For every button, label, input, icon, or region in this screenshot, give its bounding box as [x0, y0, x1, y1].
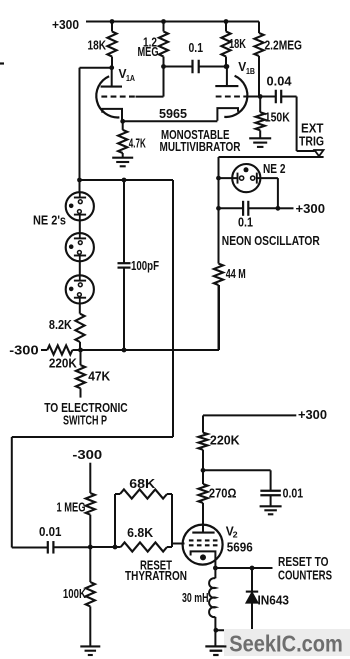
- svg-text:NEON OSCILLATOR: NEON OSCILLATOR: [222, 234, 320, 248]
- svg-text:IN643: IN643: [258, 594, 290, 608]
- svg-text:44 M: 44 M: [226, 267, 246, 281]
- svg-text:68K: 68K: [129, 477, 155, 491]
- svg-text:MEG: MEG: [138, 45, 159, 59]
- svg-text:0.1: 0.1: [238, 216, 253, 230]
- svg-text:6.8K: 6.8K: [127, 526, 153, 540]
- svg-text:0.01: 0.01: [283, 487, 304, 501]
- svg-text:5696: 5696: [227, 540, 253, 554]
- svg-text:18K: 18K: [88, 39, 107, 53]
- svg-text:-300: -300: [9, 344, 38, 358]
- svg-text:+300: +300: [296, 202, 326, 216]
- svg-text:RESET TO: RESET TO: [278, 555, 329, 569]
- svg-text:COUNTERS: COUNTERS: [278, 569, 332, 583]
- svg-text:SWITCH P: SWITCH P: [63, 413, 107, 427]
- svg-text:1A: 1A: [126, 73, 135, 83]
- svg-text:8.2K: 8.2K: [49, 318, 72, 332]
- svg-text:1B: 1B: [246, 66, 255, 76]
- svg-text:MULTIVIBRATOR: MULTIVIBRATOR: [160, 140, 241, 154]
- svg-text:18K: 18K: [229, 37, 246, 51]
- svg-text:+300: +300: [52, 18, 79, 32]
- svg-text:100K: 100K: [63, 587, 86, 601]
- svg-text:47K: 47K: [88, 370, 110, 384]
- svg-text:2.2MEG: 2.2MEG: [265, 39, 303, 53]
- svg-text:100pF: 100pF: [131, 259, 159, 273]
- svg-text:TRIG: TRIG: [299, 135, 324, 149]
- svg-text:150K: 150K: [265, 111, 290, 125]
- svg-text:SeekIC.com: SeekIC.com: [229, 631, 342, 657]
- svg-text:270Ω: 270Ω: [209, 487, 237, 501]
- svg-text:4.7K: 4.7K: [129, 137, 146, 151]
- svg-text:-300: -300: [72, 448, 102, 462]
- svg-text:NE 2: NE 2: [263, 162, 286, 176]
- svg-text:EXT: EXT: [301, 122, 324, 136]
- svg-text:220K: 220K: [210, 434, 240, 448]
- svg-text:5965: 5965: [159, 107, 187, 121]
- svg-text:NE 2's: NE 2's: [33, 214, 66, 228]
- svg-text:0.01: 0.01: [39, 525, 62, 539]
- svg-text:0.04: 0.04: [267, 75, 292, 89]
- svg-text:THYRATRON: THYRATRON: [125, 569, 187, 583]
- svg-text:+300: +300: [298, 408, 327, 422]
- svg-text:0.1: 0.1: [189, 41, 204, 55]
- svg-text:2: 2: [233, 530, 238, 540]
- svg-text:30 mH: 30 mH: [182, 591, 209, 605]
- svg-text:220K: 220K: [49, 357, 77, 371]
- svg-text:1 MEG: 1 MEG: [57, 501, 86, 515]
